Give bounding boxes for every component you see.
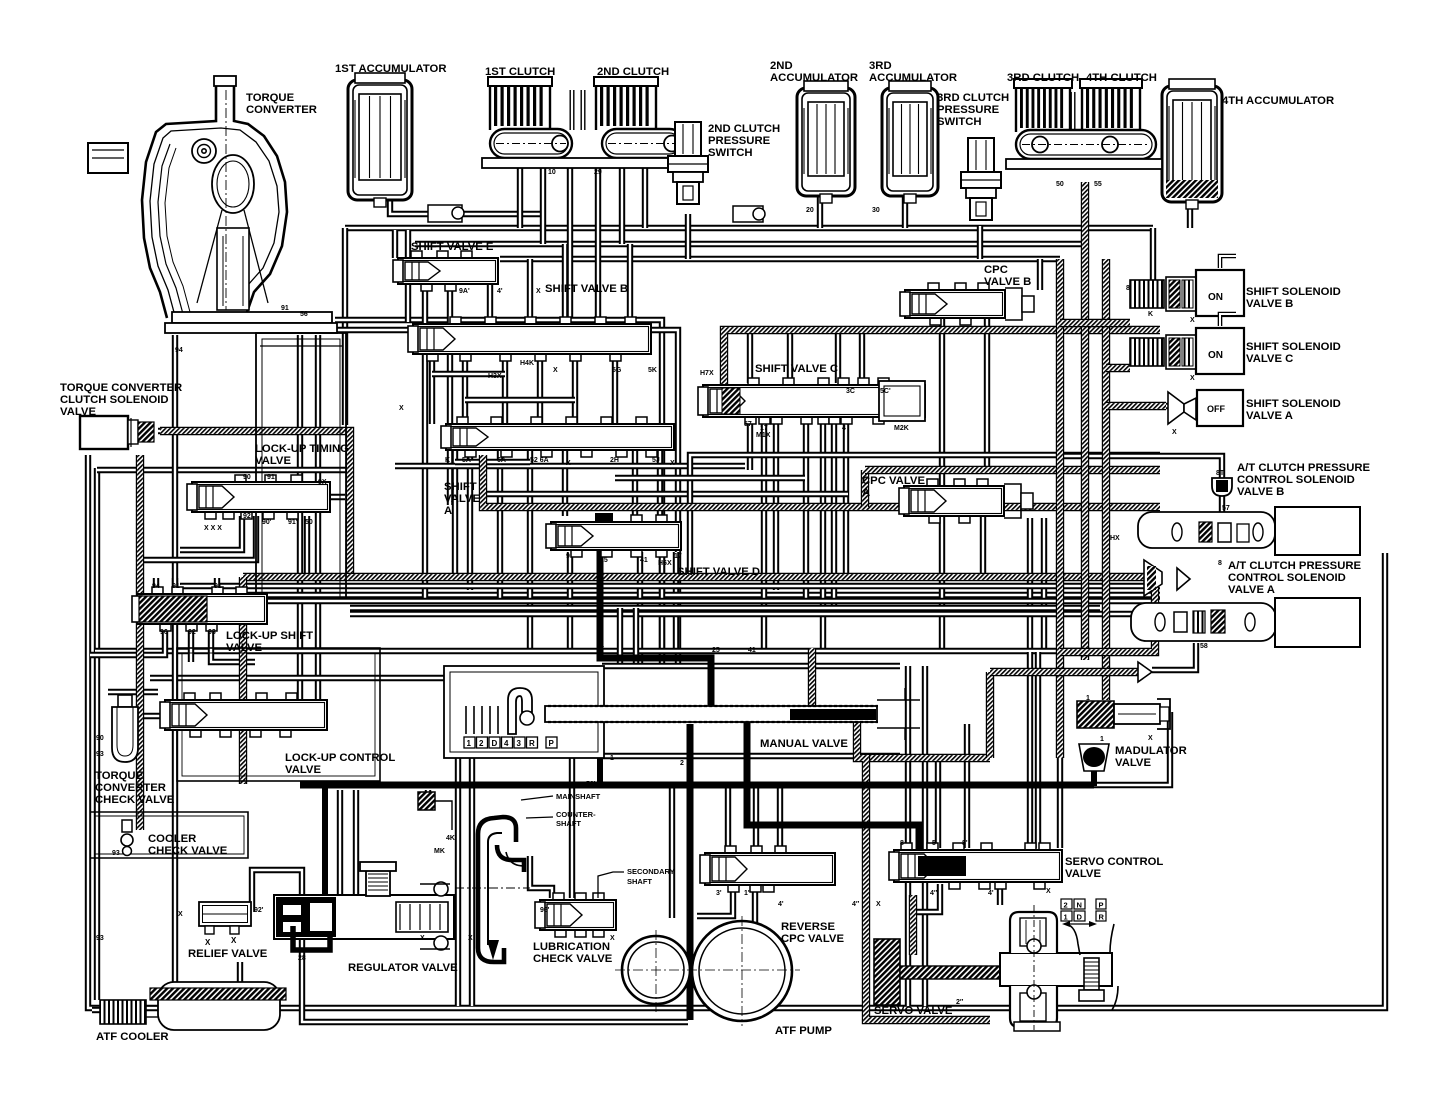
svg-text:CHECK VALVE: CHECK VALVE bbox=[148, 845, 228, 857]
wire: svb-sva link 3 bbox=[502, 354, 508, 424]
svg-text:93: 93 bbox=[208, 629, 216, 636]
3rd accumulator bbox=[882, 81, 938, 203]
svg-text:96': 96' bbox=[540, 907, 550, 914]
wire: sva drop 4 bbox=[527, 450, 533, 651]
svg-text:ATF COOLER: ATF COOLER bbox=[96, 1031, 169, 1043]
svg-text:28: 28 bbox=[298, 955, 306, 962]
cooler check valve bbox=[112, 820, 133, 857]
wire: svc top 2 bbox=[787, 333, 793, 383]
svg-text:K: K bbox=[445, 457, 450, 464]
svg-text:SHIFT SOLENOID: SHIFT SOLENOID bbox=[1246, 286, 1341, 298]
svg-text:5: 5 bbox=[932, 840, 936, 847]
atf pump centerlines bbox=[615, 916, 800, 1026]
hatched: column x140 bbox=[136, 455, 144, 830]
wire: top bus 2 bbox=[415, 241, 1085, 247]
svg-text:58': 58' bbox=[586, 781, 596, 788]
svg-text:3RD: 3RD bbox=[869, 60, 892, 72]
svg-text:8: 8 bbox=[1218, 560, 1222, 567]
wire: sva drop 2 bbox=[467, 450, 473, 590]
reverse cpc valve bbox=[700, 846, 835, 892]
svg-text:A: A bbox=[862, 487, 870, 499]
svg-text:4': 4' bbox=[988, 890, 994, 897]
wire: 2nd clutch drain b bbox=[642, 160, 648, 228]
servo gate labels bbox=[1061, 899, 1106, 927]
svg-text:2ND CLUTCH: 2ND CLUTCH bbox=[708, 123, 780, 135]
svg-text:96: 96 bbox=[160, 629, 168, 636]
wire: ata stem drop bbox=[1152, 643, 1196, 670]
svg-text:93: 93 bbox=[96, 935, 104, 942]
servo piston assembly bbox=[1000, 905, 1118, 1031]
countershaft pointer bbox=[526, 817, 553, 818]
svg-text:RELIEF VALVE: RELIEF VALVE bbox=[188, 948, 268, 960]
svg-text:PRESSURE: PRESSURE bbox=[708, 135, 771, 147]
wire: svc bottom 5 bbox=[820, 418, 826, 651]
svg-text:VALVE: VALVE bbox=[285, 764, 321, 776]
svg-text:SHAFT: SHAFT bbox=[627, 877, 652, 886]
svg-text:X: X bbox=[876, 901, 881, 908]
wire: tc column inner b bbox=[315, 335, 321, 700]
wire: svb-sva link 1 bbox=[429, 354, 435, 424]
svg-text:9X: 9X bbox=[318, 479, 327, 486]
svg-text:P: P bbox=[1099, 901, 1104, 910]
wire: bus y494 right bbox=[483, 491, 848, 497]
svg-text:A/T CLUTCH PRESSURE: A/T CLUTCH PRESSURE bbox=[1228, 560, 1362, 572]
wire: lus bottom 96 bbox=[90, 626, 165, 655]
wire: 1st accumulator outlet bbox=[390, 198, 540, 214]
wire: timing valve port 50 bbox=[304, 516, 310, 577]
wire: svc top 4 bbox=[859, 333, 865, 383]
2nd accumulator bbox=[797, 81, 855, 203]
svg-text:91': 91' bbox=[288, 519, 298, 526]
svg-text:VALVE: VALVE bbox=[1115, 757, 1151, 769]
wire: svb-sva link 6 bbox=[612, 354, 618, 424]
wire: bus y601 bbox=[170, 598, 1160, 604]
wire: cpc valve b right feed bbox=[1037, 259, 1043, 290]
svg-text:SHIFT VALVE E: SHIFT VALVE E bbox=[411, 241, 494, 253]
servo control valve dark spool bbox=[918, 856, 966, 876]
svg-text:SERVO CONTROL: SERVO CONTROL bbox=[1065, 856, 1163, 868]
2nd clutch bbox=[594, 77, 658, 130]
wire: scv col up 1 bbox=[1027, 518, 1033, 652]
shift valve C bbox=[698, 378, 925, 424]
svg-text:ATF PUMP: ATF PUMP bbox=[775, 1025, 832, 1037]
lubrication check valve bbox=[535, 893, 616, 937]
3rd clutch pressure switch bbox=[961, 138, 1001, 220]
svg-text:2H: 2H bbox=[610, 457, 619, 464]
svg-text:4: 4 bbox=[600, 643, 604, 650]
svg-text:5K: 5K bbox=[648, 367, 657, 374]
atf pump large gear bbox=[692, 921, 792, 1021]
svg-text:SERVO VALVE: SERVO VALVE bbox=[874, 1005, 953, 1017]
wire: clutch channel 34 bbox=[1071, 92, 1076, 130]
svg-text:X: X bbox=[1046, 888, 1051, 895]
wire: right drop x908 bbox=[905, 666, 911, 1006]
hatched: madulator riser bbox=[986, 672, 994, 758]
hatched: svc box top bbox=[724, 330, 1160, 412]
wire: sva-svd link 2 bbox=[632, 450, 638, 516]
svg-text:CONVERTER: CONVERTER bbox=[246, 104, 317, 116]
4th clutch bbox=[1080, 79, 1142, 132]
wire: svd area drop bbox=[673, 552, 679, 651]
relief valve bbox=[199, 902, 251, 947]
hatched: right col x1155 bbox=[1060, 570, 1155, 652]
svg-text:1: 1 bbox=[467, 739, 472, 748]
wire: svc top 3 bbox=[835, 333, 841, 383]
wire: inter-valve link 3 bbox=[455, 459, 530, 465]
svg-text:SHIFT SOLENOID: SHIFT SOLENOID bbox=[1246, 341, 1341, 353]
manual valve gate position labels bbox=[464, 737, 557, 748]
svg-text:1': 1' bbox=[744, 890, 750, 897]
svg-text:90: 90 bbox=[243, 474, 251, 481]
svg-text:4: 4 bbox=[504, 739, 509, 748]
hatched: link x865 bbox=[861, 470, 869, 507]
wire: bus y595 bbox=[243, 592, 1160, 598]
wire: tc base line a bbox=[335, 320, 662, 660]
svg-text:92: 92 bbox=[243, 513, 251, 520]
wire: scv top 1 bbox=[935, 758, 941, 848]
svg-text:LUBRICATION: LUBRICATION bbox=[533, 941, 610, 953]
svg-text:X: X bbox=[178, 911, 183, 918]
wire: scv top 3 bbox=[1057, 758, 1063, 848]
wire: sva-svd link 3 bbox=[657, 450, 663, 516]
svg-text:PRESSURE: PRESSURE bbox=[937, 104, 1000, 116]
wire: bus y455 right bbox=[690, 455, 1160, 577]
svg-text:D: D bbox=[492, 739, 498, 748]
wire: 3rd clutch pressure switch line bbox=[977, 226, 983, 259]
thick: madulator drop bbox=[1091, 744, 1097, 786]
wire: scv bottom elbow bbox=[913, 884, 940, 912]
wire: lubrication feed bbox=[569, 756, 575, 898]
wire: 2nd clutch drain a bbox=[619, 160, 625, 244]
hatched: servo-madulator link bbox=[866, 754, 990, 762]
svg-text:X: X bbox=[670, 460, 675, 467]
wire: svd drop 3 bbox=[659, 552, 665, 666]
wire: sva drop 1 bbox=[452, 450, 458, 578]
svg-text:CHECK VALVE: CHECK VALVE bbox=[95, 794, 175, 806]
svg-text:CONTROL SOLENOID: CONTROL SOLENOID bbox=[1237, 474, 1355, 486]
svg-text:91: 91 bbox=[214, 583, 222, 590]
wire: rcpc bottom 2 bbox=[752, 886, 758, 930]
wire: cpca drop 1 bbox=[939, 516, 945, 651]
wire: svc bottom m2k bbox=[843, 418, 849, 578]
hatched: column x1060 bbox=[1056, 259, 1064, 758]
svg-text:MADULATOR: MADULATOR bbox=[1115, 745, 1187, 757]
wire: atb solenoid feed bbox=[1062, 456, 1222, 480]
lock-up timing valve bbox=[187, 475, 330, 519]
wire: 2nd clutch pressure switch line bbox=[685, 214, 691, 259]
wire: scv top 5 bbox=[1027, 652, 1033, 848]
wire: clutch channel right bbox=[581, 90, 586, 130]
svg-text:3C: 3C bbox=[846, 388, 855, 395]
svg-text:1ST ACCUMULATOR: 1ST ACCUMULATOR bbox=[335, 63, 447, 75]
svg-text:4: 4 bbox=[842, 425, 846, 432]
svg-text:X: X bbox=[1190, 317, 1195, 324]
wire: left box top y470 bbox=[97, 467, 347, 473]
svg-text:41: 41 bbox=[748, 647, 756, 654]
svg-text:92': 92' bbox=[254, 907, 264, 914]
svg-text:CONVERTER: CONVERTER bbox=[95, 782, 166, 794]
svg-text:H7X: H7X bbox=[700, 370, 714, 377]
check valve arrows near at valve a bbox=[1138, 560, 1190, 682]
svg-text:41: 41 bbox=[640, 557, 648, 564]
wire: bus y614 bbox=[350, 611, 1160, 617]
wire: svb top port 4 bbox=[627, 244, 633, 322]
wire: manual box drop 2 bbox=[469, 756, 475, 1006]
4th accumulator bbox=[1162, 79, 1222, 209]
shift valve A bbox=[441, 417, 674, 457]
wire: manual right bus top bbox=[602, 663, 900, 669]
svg-text:ACCUMULATOR: ACCUMULATOR bbox=[869, 72, 957, 84]
svg-text:91': 91' bbox=[172, 583, 182, 590]
wire: bus y466 bbox=[395, 463, 745, 469]
wire: svb top port 3 bbox=[562, 244, 568, 322]
lock-up shift valve hatched block bbox=[139, 596, 207, 622]
svg-text:4TH ACCUMULATOR: 4TH ACCUMULATOR bbox=[1222, 95, 1334, 107]
hatched: left drop x243 bbox=[239, 577, 247, 784]
wire: scv col up 2 bbox=[1041, 518, 1047, 652]
wire: manual top link 2 bbox=[633, 608, 639, 668]
svg-text:90': 90' bbox=[262, 519, 272, 526]
wire: sve drain 1 bbox=[422, 286, 428, 601]
svg-text:6A: 6A bbox=[497, 457, 506, 464]
svg-text:CPC: CPC bbox=[984, 264, 1008, 276]
wire: cpcb-cpca link 2 bbox=[984, 318, 990, 470]
wire: manual box drop 1 bbox=[455, 756, 461, 1006]
svg-text:SHIFT: SHIFT bbox=[444, 481, 477, 493]
wire: 4k branch bbox=[425, 790, 431, 806]
wire: left frame bbox=[88, 455, 1385, 1008]
wire: svc bottom 57 bbox=[747, 418, 753, 470]
torque converter clutch solenoid valve bbox=[80, 416, 154, 449]
shift valve D thick port bbox=[595, 513, 613, 522]
wire: lubrication elbow bbox=[530, 856, 552, 898]
hatched: sol a link bbox=[1106, 402, 1166, 410]
wire: scv top 6 bbox=[1035, 652, 1041, 848]
wire: svc bottom 17 bbox=[761, 418, 767, 651]
svg-text:8: 8 bbox=[1126, 285, 1130, 292]
svg-text:3': 3' bbox=[716, 890, 722, 897]
wire: scv bottom elbow 2 bbox=[997, 884, 1003, 905]
wire: manual top link 1 bbox=[617, 608, 623, 668]
svg-text:X: X bbox=[536, 288, 541, 295]
svg-text:CHECK VALVE: CHECK VALVE bbox=[533, 953, 613, 965]
svg-text:LOCK-UP CONTROL: LOCK-UP CONTROL bbox=[285, 752, 395, 764]
svg-text:1ST CLUTCH: 1ST CLUTCH bbox=[485, 66, 555, 78]
wire: svd drop 2 bbox=[637, 552, 643, 666]
svg-text:30: 30 bbox=[872, 207, 880, 214]
wire: regulator top feed 1 bbox=[337, 790, 343, 895]
wire: right drop from top bus bbox=[1150, 228, 1156, 284]
servo valve slab bbox=[874, 939, 1000, 1005]
svg-text:VALVE: VALVE bbox=[444, 493, 480, 505]
svg-text:SHAFT: SHAFT bbox=[556, 819, 581, 828]
svg-text:X: X bbox=[610, 935, 615, 942]
hatched: servo feed bbox=[909, 895, 917, 955]
svg-text:94: 94 bbox=[152, 583, 160, 590]
svg-text:A/T CLUTCH PRESSURE: A/T CLUTCH PRESSURE bbox=[1237, 462, 1371, 474]
wire: 1st clutch drain b bbox=[540, 160, 546, 244]
wire: left line 97 bbox=[94, 468, 100, 1000]
wire: bus y586 bbox=[180, 583, 1160, 589]
svg-text:REVERSE: REVERSE bbox=[781, 921, 835, 933]
shift valve E bbox=[393, 251, 498, 291]
svg-text:VALVE C: VALVE C bbox=[1246, 353, 1293, 365]
hatched: sol b link bbox=[1060, 319, 1130, 327]
svg-text:X: X bbox=[1148, 735, 1153, 742]
svg-text:17: 17 bbox=[674, 553, 682, 560]
wire: sol a link bbox=[1148, 403, 1168, 409]
svg-text:SHIFT VALVE D: SHIFT VALVE D bbox=[677, 566, 760, 578]
svg-text:1: 1 bbox=[1100, 736, 1104, 743]
wire: lus bottom 93 bbox=[211, 626, 255, 662]
cooler check valve box bbox=[90, 812, 248, 858]
svg-text:50: 50 bbox=[305, 519, 313, 526]
svg-text:1: 1 bbox=[1086, 695, 1090, 702]
svg-text:2″: 2″ bbox=[956, 999, 964, 1006]
svg-text:3RD CLUTCH: 3RD CLUTCH bbox=[937, 92, 1009, 104]
hatched: servo column bbox=[857, 722, 990, 1020]
wire: cpcb-cpca link 1 bbox=[939, 318, 945, 486]
svg-text:2: 2 bbox=[680, 760, 684, 767]
wire: 2nd accumulator outlet bbox=[817, 196, 823, 228]
wire: tcc solenoid line bbox=[158, 428, 348, 434]
wire: lucv left bbox=[143, 713, 165, 719]
shift solenoid valve A bbox=[1168, 390, 1243, 426]
svg-text:50: 50 bbox=[1056, 181, 1064, 188]
svg-text:VALVE B: VALVE B bbox=[984, 276, 1031, 288]
port number labels bbox=[96, 169, 1262, 1006]
svg-text:25: 25 bbox=[600, 557, 608, 564]
svg-text:X X X: X X X bbox=[204, 525, 222, 532]
wire: svb top port 2 bbox=[527, 259, 533, 322]
svg-text:X: X bbox=[566, 460, 571, 467]
1st clutch bbox=[488, 77, 552, 130]
wire: right drop x925 bbox=[922, 666, 928, 1006]
svg-text:LOCK-UP SHIFT: LOCK-UP SHIFT bbox=[226, 630, 313, 642]
svg-text:R: R bbox=[529, 739, 535, 748]
wire: 4th accumulator outlet bbox=[1187, 202, 1193, 228]
at solenoid valve b symbol bbox=[1212, 478, 1232, 496]
svg-text:X: X bbox=[205, 938, 211, 947]
wire: lus top 91 bbox=[214, 578, 220, 591]
svg-text:MAINSHAFT: MAINSHAFT bbox=[556, 792, 601, 801]
thick: below spool x600 bbox=[597, 722, 603, 785]
svg-text:2ND CLUTCH: 2ND CLUTCH bbox=[597, 66, 669, 78]
svg-text:A: A bbox=[444, 505, 452, 517]
hatched: sol c link bbox=[1106, 364, 1130, 372]
svg-text:MANUAL VALVE: MANUAL VALVE bbox=[760, 738, 848, 750]
wire: 1st clutch drain a bbox=[517, 160, 523, 228]
svg-text:VALVE A: VALVE A bbox=[1246, 410, 1293, 422]
svg-text:TORQUE: TORQUE bbox=[95, 770, 144, 782]
shift solenoid valve B bbox=[1130, 256, 1244, 316]
thick: regulator drop bbox=[322, 788, 328, 900]
svg-text:57: 57 bbox=[744, 421, 752, 428]
at clutch pressure control solenoid valve a assembly bbox=[1131, 598, 1360, 647]
svg-text:H6X: H6X bbox=[658, 560, 672, 567]
wire: cpca drop 2 bbox=[980, 516, 986, 578]
svg-text:COUNTER-: COUNTER- bbox=[556, 810, 596, 819]
svg-text:TORQUE CONVERTER: TORQUE CONVERTER bbox=[60, 382, 182, 394]
svg-text:X: X bbox=[553, 367, 558, 374]
wire: clutch channel left bbox=[570, 90, 575, 130]
lock-up control valve bbox=[160, 693, 327, 737]
atf pump small gear bbox=[622, 936, 690, 1004]
wire: sve feed a bbox=[392, 230, 398, 258]
wire: sve drain 2 bbox=[447, 284, 453, 505]
svg-text:5G: 5G bbox=[612, 367, 622, 374]
svg-text:CPC VALVE: CPC VALVE bbox=[862, 475, 925, 487]
hatched: column x1085 bbox=[1081, 182, 1089, 660]
svg-text:H4K: H4K bbox=[520, 360, 534, 367]
manual valve shift gate bbox=[466, 688, 534, 734]
wire: manual right bus bottom bbox=[602, 753, 900, 759]
wire: top bus 3 bbox=[500, 256, 1060, 262]
svg-text:52 6A: 52 6A bbox=[530, 457, 549, 464]
1st clutch drum bbox=[490, 129, 572, 158]
wire: top bus 1 bbox=[345, 225, 1153, 231]
wire: timing valve port 90 bbox=[180, 516, 242, 550]
wire: tc column feed bbox=[342, 228, 348, 425]
hatched: x812 drop bbox=[808, 648, 816, 706]
wire: sve feed b bbox=[405, 230, 411, 322]
svg-text:55: 55 bbox=[1094, 181, 1102, 188]
wire: svb-sva link 5 bbox=[572, 354, 578, 424]
wire: timing valve right bbox=[322, 494, 345, 500]
hatched: bus y507 bbox=[483, 455, 1160, 507]
svg-text:ACCUMULATOR: ACCUMULATOR bbox=[770, 72, 858, 84]
svg-text:5A: 5A bbox=[462, 457, 471, 464]
wire: bus y678 bbox=[150, 675, 444, 681]
svg-text:91: 91 bbox=[267, 474, 275, 481]
svg-text:3: 3 bbox=[517, 739, 522, 748]
svg-text:3RD CLUTCH: 3RD CLUTCH bbox=[1007, 72, 1079, 84]
svg-text:8': 8' bbox=[962, 840, 968, 847]
svg-text:20: 20 bbox=[806, 207, 814, 214]
svg-text:VALVE: VALVE bbox=[255, 455, 291, 467]
hatched: bus y470 right bbox=[865, 466, 1160, 474]
svg-text:COOLER: COOLER bbox=[148, 833, 196, 845]
shift valve B bbox=[408, 317, 651, 361]
wire: svc top 1 bbox=[747, 333, 753, 383]
cpc valve A right bracket bbox=[1004, 484, 1021, 518]
svg-text:4″: 4″ bbox=[930, 890, 938, 897]
torque converter check valve bbox=[112, 695, 138, 762]
svg-text:SHIFT VALVE B: SHIFT VALVE B bbox=[545, 283, 628, 295]
wire: bus y651 bbox=[95, 648, 1090, 654]
svg-text:CLUTCH SOLENOID: CLUTCH SOLENOID bbox=[60, 394, 169, 406]
svg-text:M2K: M2K bbox=[894, 425, 909, 432]
svg-text:29: 29 bbox=[594, 169, 602, 176]
cpc valve B right bracket bbox=[1005, 288, 1022, 320]
svg-text:25: 25 bbox=[712, 647, 720, 654]
svg-text:5J: 5J bbox=[652, 457, 660, 464]
manual valve spool bbox=[545, 688, 920, 740]
svg-text:4': 4' bbox=[778, 901, 784, 908]
svg-text:X: X bbox=[420, 935, 425, 942]
regulator valve bbox=[274, 862, 454, 950]
svg-text:SWITCH: SWITCH bbox=[708, 147, 753, 159]
wire: tc column inner a bbox=[297, 335, 303, 700]
svg-text:CONTROL SOLENOID: CONTROL SOLENOID bbox=[1228, 572, 1346, 584]
svg-text:REGULATOR VALVE: REGULATOR VALVE bbox=[348, 962, 458, 974]
mainshaft-countershaft duct bbox=[455, 817, 530, 962]
svg-text:VALVE: VALVE bbox=[60, 406, 96, 418]
svg-text:K: K bbox=[1148, 311, 1153, 318]
atf cooler bbox=[100, 982, 286, 1030]
svg-text:SHIFT SOLENOID: SHIFT SOLENOID bbox=[1246, 398, 1341, 410]
4K MK fitting bbox=[418, 792, 455, 855]
